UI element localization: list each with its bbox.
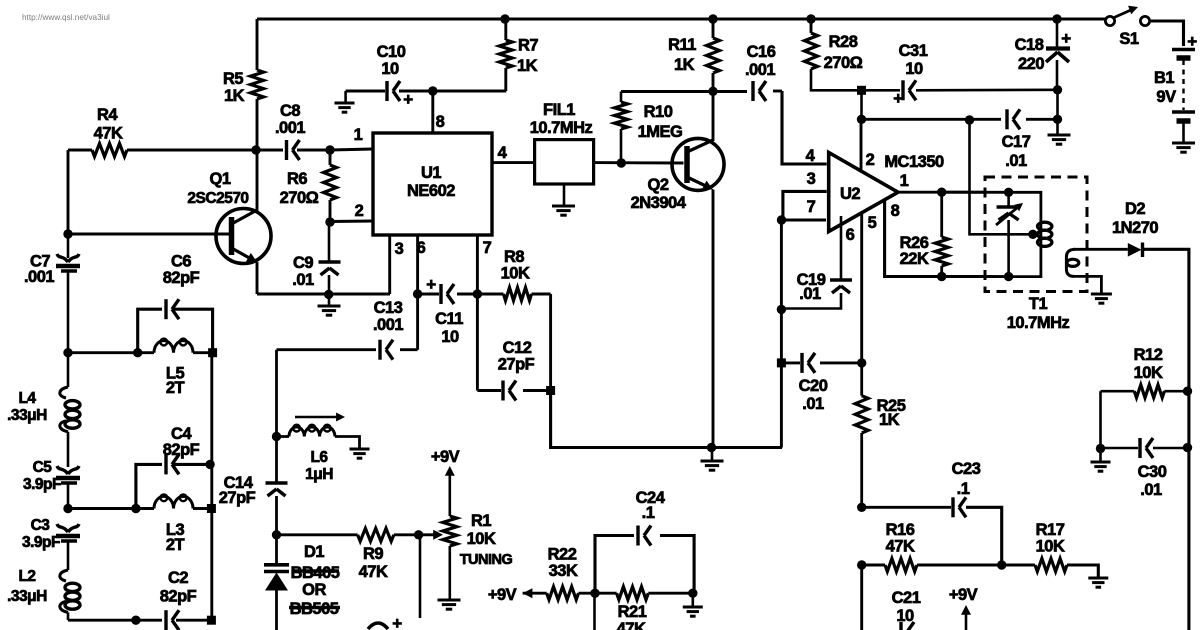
svg-text:C5: C5	[33, 459, 53, 476]
svg-text:1MEG: 1MEG	[638, 123, 683, 141]
pin 6 label U2	[846, 226, 855, 244]
svg-text:10: 10	[896, 607, 914, 625]
label C14	[219, 474, 256, 507]
svg-text:10.7MHz: 10.7MHz	[1007, 314, 1070, 332]
node junction R16/R17	[997, 560, 1006, 569]
svg-text:.1: .1	[957, 480, 970, 498]
resistor R4	[92, 144, 127, 157]
node junction pin8/C10	[428, 86, 437, 95]
svg-text:C16: C16	[747, 43, 776, 61]
svg-text:C11: C11	[435, 310, 463, 328]
svg-text:.001: .001	[373, 316, 403, 334]
svg-text:+: +	[1061, 29, 1071, 48]
node junction C20 left	[777, 358, 786, 367]
svg-text:C8: C8	[280, 102, 300, 120]
wire L5 row	[68, 351, 213, 354]
resistor R5	[251, 19, 264, 150]
node junction C2 left	[131, 616, 140, 625]
wire T1 primary top	[1009, 192, 1041, 218]
svg-text:47K: 47K	[617, 620, 646, 630]
svg-text:C12: C12	[503, 339, 532, 357]
svg-text:R12: R12	[1134, 346, 1163, 364]
svg-text:C18: C18	[1015, 36, 1044, 54]
label C10 +	[403, 90, 413, 109]
label Q1	[187, 170, 248, 207]
svg-text:82pF: 82pF	[163, 441, 200, 459]
label url	[22, 13, 110, 22]
node junction C12/R8 right	[546, 294, 555, 395]
wire C2 row	[68, 619, 212, 622]
wire R17 right	[1067, 565, 1098, 578]
svg-text:C2: C2	[168, 569, 188, 587]
svg-text:R7: R7	[518, 37, 538, 55]
label R6	[280, 170, 319, 207]
node junction R21/gnd	[688, 589, 697, 598]
svg-text:1N270: 1N270	[1112, 219, 1158, 237]
svg-text:+9V: +9V	[949, 586, 978, 604]
wire R22 arrow	[523, 588, 547, 598]
ground R1	[438, 600, 461, 609]
svg-text:C3: C3	[31, 517, 51, 534]
wire U2 pin2	[860, 119, 863, 170]
svg-text:47K: 47K	[94, 125, 123, 143]
svg-text:7: 7	[807, 198, 816, 216]
svg-text:1: 1	[354, 126, 363, 144]
node junction C6 left	[133, 348, 142, 357]
node junction C4 right	[205, 460, 214, 469]
svg-text:6: 6	[846, 226, 855, 244]
capacitor C18	[1046, 19, 1070, 90]
label R1	[460, 512, 513, 568]
capacitor C16	[753, 81, 766, 101]
label C31 +	[893, 89, 903, 108]
node junction R9/R1	[414, 530, 423, 539]
label D1	[289, 543, 340, 618]
capacitor C9	[319, 222, 341, 294]
capacitor C30	[1101, 438, 1188, 458]
wire right ladder rail	[210, 353, 213, 621]
ground Q2 emitter	[701, 448, 724, 471]
label C7	[24, 253, 54, 287]
wire R12 left down	[1099, 391, 1102, 448]
capacitor C3	[56, 524, 80, 570]
label C4	[163, 425, 200, 459]
svg-text:R5: R5	[223, 70, 243, 88]
resistor R8	[504, 288, 532, 301]
svg-text:10K: 10K	[1036, 538, 1065, 556]
svg-text:3: 3	[807, 170, 816, 188]
wire R22 to R21	[579, 592, 617, 595]
label R22 +9V	[488, 586, 517, 604]
capacitor C31	[903, 80, 1058, 100]
capacitor C19	[781, 216, 852, 309]
pin 3 label	[395, 240, 404, 258]
capacitor C10	[387, 81, 400, 101]
op-amp U1 NE602	[373, 133, 492, 235]
pin 5 label U2	[868, 214, 877, 232]
svg-text:3: 3	[395, 240, 404, 258]
resistor R22	[547, 587, 579, 600]
svg-text:U1: U1	[421, 164, 441, 182]
capacitor C12	[503, 381, 516, 401]
label B1 +	[1187, 32, 1197, 51]
svg-text:8: 8	[436, 113, 445, 131]
ground FIL1	[552, 184, 575, 215]
svg-text:C31: C31	[899, 42, 928, 60]
ground C30	[1091, 449, 1111, 472]
svg-text:10K: 10K	[467, 530, 496, 548]
svg-text:C6: C6	[171, 253, 191, 271]
svg-text:R6: R6	[287, 170, 307, 188]
label C16	[745, 43, 776, 79]
node junction output/R26	[937, 188, 946, 197]
wire C17 row	[862, 90, 1058, 119]
resistor R21	[617, 587, 649, 600]
resistor R9	[358, 528, 394, 541]
capacitor C2	[166, 610, 179, 630]
node junction R22/C24	[590, 589, 599, 598]
label C23	[952, 460, 981, 498]
transistor Q2	[672, 138, 724, 190]
node junction C30 right	[1183, 443, 1192, 452]
wire tap to T1	[970, 120, 1030, 234]
capacitor C23	[862, 497, 1002, 565]
svg-text:R10: R10	[644, 103, 673, 121]
ground R17	[1088, 578, 1108, 587]
capacitor C17	[1007, 109, 1020, 129]
label C10	[377, 43, 406, 78]
label C3	[22, 517, 60, 551]
svg-text:47K: 47K	[359, 563, 388, 581]
svg-text:.01: .01	[799, 285, 821, 303]
svg-text:.001: .001	[24, 268, 54, 286]
wire R1 +9V arrow	[445, 466, 455, 516]
inductor L4	[60, 353, 80, 467]
label L2	[7, 568, 47, 605]
inductor T1 secondary	[1066, 249, 1078, 276]
wire D2 to right rail	[1143, 249, 1189, 630]
svg-text:10K: 10K	[1134, 364, 1163, 382]
transistor Q1	[216, 209, 271, 264]
label R21	[617, 603, 647, 630]
svg-text:.1: .1	[642, 504, 655, 522]
wire T1 secondary bottom	[1074, 276, 1101, 294]
node junction C5/L3 row	[63, 504, 72, 513]
node junction C20 right	[857, 358, 866, 367]
wire T1 to D2	[1074, 248, 1128, 251]
pin 8 label U2	[891, 202, 900, 220]
svg-text:C20: C20	[799, 377, 828, 395]
resistor R1 pot	[443, 516, 457, 600]
svg-text:.01: .01	[1005, 152, 1027, 170]
svg-text:10: 10	[905, 60, 923, 78]
svg-text:220: 220	[1018, 55, 1044, 73]
svg-text:+9V: +9V	[431, 448, 460, 466]
node junction C14/R9	[272, 530, 281, 539]
svg-text:B1: B1	[1154, 69, 1174, 87]
node junction C7/L5 row	[63, 348, 72, 357]
inductor L6	[277, 425, 360, 449]
capacitor C11	[441, 284, 454, 304]
wire C10 row	[346, 90, 507, 93]
svg-text:+: +	[893, 89, 903, 108]
svg-text:D1: D1	[304, 543, 324, 561]
node junction base/C7	[63, 229, 72, 238]
svg-text:1μH: 1μH	[305, 466, 333, 483]
node junction L3 right	[207, 504, 216, 513]
capacitor C7	[56, 234, 80, 353]
svg-text:+: +	[426, 275, 436, 294]
svg-text:1K: 1K	[674, 56, 695, 74]
node junction T1 cap bottom	[1004, 272, 1013, 281]
svg-text:TUNING: TUNING	[460, 552, 513, 568]
capacitor C24 loop	[595, 526, 694, 594]
node junction C18/C31	[1053, 85, 1062, 94]
resistor R6	[324, 150, 337, 222]
svg-text:R22: R22	[548, 546, 577, 564]
svg-text:C13: C13	[374, 299, 403, 317]
svg-text:OR: OR	[302, 581, 326, 599]
svg-text:U2: U2	[840, 185, 860, 203]
pin 4 label U2	[806, 147, 816, 165]
wire R4 row	[68, 149, 373, 150]
svg-text:C30: C30	[1138, 463, 1167, 481]
node junction R28/C17 col	[857, 86, 866, 95]
node junction R10/base	[617, 158, 626, 167]
svg-text:47K: 47K	[886, 538, 915, 556]
svg-text:2T: 2T	[166, 536, 185, 554]
wire pin8 into T1	[985, 275, 1009, 278]
label C24	[636, 489, 666, 522]
wire R9 junction down	[419, 535, 422, 618]
label R22	[548, 546, 578, 581]
svg-text:L4: L4	[18, 390, 36, 407]
svg-text:R4: R4	[97, 106, 118, 124]
svg-text:.001: .001	[275, 119, 305, 137]
node junction C17 right	[1053, 115, 1062, 124]
svg-text:R16: R16	[886, 521, 915, 539]
svg-text:10K: 10K	[501, 265, 530, 283]
ground L6	[350, 449, 370, 458]
label R4	[94, 106, 123, 143]
svg-text:FIL1: FIL1	[543, 101, 575, 119]
svg-text:8: 8	[891, 202, 900, 220]
svg-text:C23: C23	[952, 460, 981, 478]
svg-text:22K: 22K	[900, 250, 929, 268]
capacitor C14	[266, 483, 288, 535]
svg-text:R8: R8	[504, 248, 524, 266]
svg-text:NE602: NE602	[407, 182, 455, 200]
wire L3 row	[68, 507, 212, 510]
switch S1	[1105, 6, 1149, 26]
node junction R11/C16	[708, 87, 717, 96]
resistor R16	[885, 559, 917, 572]
label R1 +9V	[431, 448, 460, 466]
wire R16 to R17	[917, 564, 1035, 567]
label C6	[163, 253, 200, 288]
wire R21 right	[648, 592, 693, 595]
label R25	[877, 397, 906, 429]
node junction R6/pin2	[325, 217, 334, 226]
label C20	[799, 377, 828, 413]
wire S1 to battery	[1150, 21, 1184, 46]
pin 1 label	[354, 126, 363, 144]
svg-text:T1: T1	[1029, 295, 1048, 313]
battery B1	[1172, 50, 1195, 144]
wire C24 junction down	[593, 593, 596, 630]
node junction R26 bottom	[937, 272, 946, 281]
svg-text:33K: 33K	[549, 562, 578, 580]
label R9	[359, 545, 388, 581]
svg-text:1K: 1K	[517, 57, 538, 75]
label MC1350	[884, 153, 944, 171]
node junction pin7/pin3	[777, 215, 786, 224]
node junction R12 right	[1183, 387, 1192, 396]
inductor L3	[154, 494, 193, 508]
capacitor T1 tuning	[996, 192, 1023, 276]
resistor R7	[499, 19, 512, 91]
wire R1 wiper arrow	[419, 530, 443, 540]
svg-text:10.7MHz: 10.7MHz	[530, 119, 593, 137]
wire Q1 emitter	[256, 262, 259, 294]
wire R25 column down	[860, 565, 863, 630]
label C18	[1015, 36, 1045, 73]
transformer T1 box	[985, 177, 1087, 292]
svg-text:C10: C10	[377, 43, 406, 61]
label C11	[435, 310, 463, 346]
capacitor C20	[781, 353, 861, 373]
svg-text:R11: R11	[668, 36, 696, 54]
label R17	[1036, 521, 1065, 556]
svg-text:10: 10	[441, 328, 459, 346]
resistor R25	[855, 363, 868, 507]
wire U2 output	[898, 191, 985, 194]
capacitor C5	[56, 466, 80, 509]
wire +9V top rail	[257, 14, 1105, 23]
capacitor C21 partial	[901, 622, 914, 630]
svg-text:C9: C9	[293, 254, 313, 272]
pin 7 label U2	[807, 198, 816, 216]
pin 8 label	[436, 113, 445, 131]
svg-text:R28: R28	[829, 33, 858, 51]
label C11 +	[426, 275, 436, 294]
wire Q1 base	[68, 150, 229, 234]
wire output into T1	[942, 191, 1009, 194]
ground R21	[683, 593, 703, 616]
label L5	[166, 365, 185, 398]
label L6	[305, 449, 333, 483]
label C21 +9V	[949, 586, 978, 604]
wire U1 pin2	[330, 220, 373, 223]
wire +9V arrow C21	[961, 605, 971, 630]
wire U1 pin7	[476, 235, 479, 391]
svg-text:R21: R21	[618, 603, 647, 621]
pin 7 label	[483, 239, 492, 257]
wire Q2 emitter	[712, 190, 715, 449]
resistor R17	[1035, 559, 1067, 572]
wire U2 pin5	[860, 212, 863, 363]
label R28	[824, 33, 863, 72]
wire C11 R8 row	[418, 293, 551, 296]
node junction L6	[272, 432, 281, 441]
svg-text:R17: R17	[1036, 521, 1065, 539]
label R8	[501, 248, 530, 283]
label L4	[7, 390, 47, 424]
svg-text:Q2: Q2	[647, 176, 668, 194]
svg-text:2T: 2T	[166, 379, 185, 397]
node junction R16 left	[857, 560, 866, 569]
label T1	[1007, 295, 1070, 332]
wire C16 to pin4	[782, 91, 827, 164]
svg-text:270Ω: 270Ω	[280, 189, 319, 207]
svg-text:S1: S1	[1119, 30, 1139, 48]
pin 1 label U2	[900, 172, 909, 190]
node junction T1 cap top	[1004, 188, 1013, 197]
diode D1 varactor	[264, 535, 289, 630]
node junction C8/R6/pin1	[325, 145, 334, 154]
label R5	[223, 70, 245, 105]
wire C14 column	[275, 350, 278, 483]
svg-text:270Ω: 270Ω	[824, 54, 863, 72]
node junction emitter/gnd	[707, 443, 716, 452]
svg-text:C21: C21	[892, 589, 921, 607]
svg-text:L6: L6	[310, 449, 328, 466]
node junction tap	[965, 115, 974, 124]
label R16	[886, 521, 915, 556]
svg-text:.01: .01	[292, 271, 314, 289]
svg-text:.33μH: .33μH	[7, 407, 47, 424]
wire emitter to pin3	[257, 293, 390, 296]
wire FIL1 to Q2	[594, 161, 684, 164]
svg-text:.001: .001	[745, 61, 775, 79]
svg-text:BB405: BB405	[291, 564, 340, 582]
wire U2 pin7	[782, 219, 827, 222]
node junction C4 left	[131, 504, 140, 513]
node junction C19 left	[777, 305, 786, 314]
node junction R4/C8	[251, 145, 260, 154]
svg-text:+: +	[392, 614, 402, 630]
node junction R25/C23	[857, 503, 866, 512]
svg-text:MC1350: MC1350	[884, 153, 944, 171]
wire C12 down-right	[551, 391, 782, 448]
label C9	[292, 254, 314, 289]
label C12	[498, 339, 535, 374]
svg-text:+9V: +9V	[488, 586, 517, 604]
wire T1 primary bottom	[1009, 248, 1041, 277]
svg-text:2SC2570: 2SC2570	[187, 190, 248, 207]
svg-text:1K: 1K	[224, 87, 245, 105]
svg-text:2: 2	[866, 151, 875, 169]
wire pin7 column	[780, 220, 783, 448]
wire U1 pin8	[431, 91, 434, 133]
label D2	[1112, 200, 1158, 237]
svg-text:10: 10	[381, 60, 399, 78]
label R12	[1134, 346, 1163, 382]
svg-text:7: 7	[483, 239, 492, 257]
label R10	[638, 103, 683, 141]
svg-text:http://www.qsl.net/va3iul: http://www.qsl.net/va3iul	[22, 13, 110, 22]
wire R16 row	[862, 564, 885, 567]
resistor R11	[707, 19, 720, 92]
pin 3 label U2	[807, 170, 816, 188]
svg-text:27pF: 27pF	[219, 489, 256, 507]
node junction L5/right rail	[208, 348, 217, 357]
label C19	[797, 271, 826, 303]
label Q2	[631, 176, 687, 212]
wire R10/R11/C16 row	[621, 90, 782, 93]
wire U2 pin8	[885, 199, 985, 276]
label C13	[373, 299, 403, 334]
